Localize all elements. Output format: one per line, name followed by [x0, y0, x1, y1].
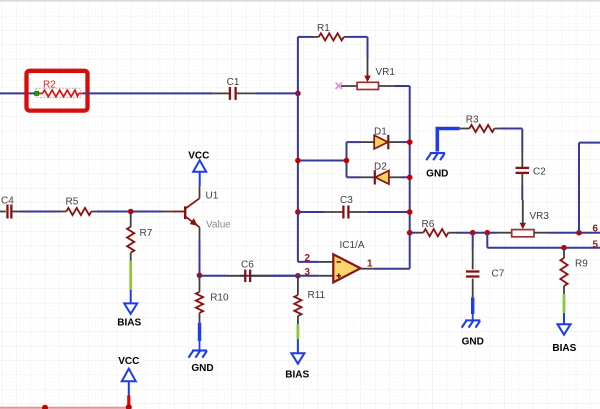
junction [197, 273, 203, 279]
wire segment (bias net) [296, 324, 299, 339]
power GND [430, 152, 445, 154]
wire [373, 268, 409, 270]
resistor R11 [297, 276, 299, 295]
wire [347, 36, 368, 38]
window top edge [0, 0, 600, 1]
wire segment (gnd net) [198, 323, 201, 341]
svg-text:GND: GND [191, 363, 213, 374]
wire segment (selected) [0, 407, 129, 409]
junction [407, 175, 413, 181]
svg-text:C4: C4 [1, 196, 14, 207]
svg-text:VR3: VR3 [530, 211, 550, 222]
svg-text:VCC: VCC [118, 356, 139, 367]
op-amp IC1/A [333, 254, 360, 282]
svg-text:R9: R9 [575, 259, 588, 270]
resistor R9 [563, 248, 565, 258]
wire [395, 85, 410, 87]
resistor R3 [460, 128, 470, 130]
svg-text:C6: C6 [241, 259, 254, 270]
wire [367, 37, 369, 58]
svg-text:C3: C3 [340, 195, 353, 206]
wire [367, 211, 409, 213]
wire [346, 142, 348, 177]
svg-text:5: 5 [593, 239, 599, 250]
svg-text:6: 6 [593, 223, 599, 234]
capacitor C6 [200, 275, 227, 277]
junction [295, 91, 301, 97]
junction [295, 273, 301, 279]
wire [199, 341, 201, 351]
svg-text:VCC: VCC [188, 151, 209, 162]
resistor R2 (selected) [36, 88, 81, 97]
wire [298, 261, 319, 263]
wire [401, 176, 410, 178]
svg-text:BIAS: BIAS [552, 343, 576, 354]
junction [128, 209, 134, 215]
wire [297, 37, 299, 262]
svg-text:GND: GND [462, 337, 484, 348]
svg-text:R1: R1 [317, 23, 330, 34]
junction [407, 139, 413, 145]
wire segment (gnd net) [437, 129, 459, 152]
capacitor C4 [0, 211, 6, 213]
wire segment (selected) [127, 396, 130, 408]
diode D1 [347, 141, 361, 143]
junction [295, 158, 301, 164]
power GND [465, 319, 480, 321]
svg-text:C2: C2 [533, 167, 546, 178]
wire [83, 92, 213, 94]
junction [407, 209, 413, 215]
svg-text:3: 3 [305, 267, 311, 278]
wire [549, 232, 600, 234]
wire segment (gnd net) [471, 297, 474, 314]
junction [344, 158, 350, 164]
svg-text:D1: D1 [374, 127, 387, 138]
svg-text:VR1: VR1 [376, 67, 396, 78]
svg-text:R5: R5 [66, 197, 79, 208]
pin lead [361, 268, 374, 270]
wire [486, 233, 488, 248]
selection frame [27, 71, 88, 111]
wire [563, 313, 565, 324]
junction [561, 245, 567, 251]
wire [401, 141, 410, 143]
svg-text:2: 2 [305, 253, 311, 264]
power GND [192, 349, 207, 351]
junction [485, 230, 491, 236]
svg-text:IC1/A: IC1/A [340, 240, 365, 251]
wire [0, 92, 37, 94]
junction [295, 209, 301, 215]
wire [409, 86, 411, 269]
resistor R1 [311, 36, 319, 38]
wire [269, 275, 298, 277]
svg-text:R6: R6 [422, 219, 435, 230]
resistor R7 [130, 212, 132, 227]
junction [126, 404, 132, 409]
svg-text:R11: R11 [308, 290, 326, 301]
wire [456, 232, 497, 234]
wire [298, 160, 347, 162]
wire [579, 142, 600, 144]
svg-text:BIAS: BIAS [285, 369, 309, 380]
resistor R6 [410, 232, 416, 234]
pin lead [162, 211, 172, 213]
wire [97, 211, 162, 213]
pin lead [319, 261, 333, 263]
junction [42, 405, 48, 409]
potentiometer VR1 [367, 58, 369, 75]
diode D2 [347, 176, 361, 178]
svg-text:D2: D2 [374, 162, 387, 173]
wire [240, 275, 298, 277]
junction [576, 230, 582, 236]
resistor R10 [199, 275, 201, 291]
pin lead [522, 200, 524, 223]
power BIAS [558, 324, 571, 335]
wire segment (bias net) [563, 294, 566, 313]
svg-text:R10: R10 [210, 293, 229, 304]
wire [255, 92, 298, 94]
junction [470, 230, 476, 236]
wire [521, 186, 523, 201]
wire [130, 290, 132, 303]
svg-text:C1: C1 [227, 77, 240, 88]
wire [501, 128, 523, 130]
wire segment (bias net) [129, 261, 132, 290]
wire [20, 211, 61, 213]
wire [472, 314, 474, 320]
wire [298, 36, 311, 38]
capacitor C2 [521, 152, 523, 167]
svg-text:U1: U1 [206, 190, 219, 201]
svg-text:R3: R3 [466, 114, 479, 125]
resistor R5 [61, 211, 67, 213]
capacitor C1 [213, 92, 229, 94]
potentiometer VR3 [497, 232, 512, 234]
svg-text:C7: C7 [492, 269, 505, 280]
junction [407, 230, 413, 236]
pin lead [199, 227, 201, 240]
wire [297, 339, 299, 353]
power BIAS [291, 353, 304, 364]
no-ERC cross [336, 83, 342, 89]
pin lead [298, 275, 319, 277]
transistor U1 [199, 186, 201, 198]
svg-text:Value: Value [206, 220, 231, 231]
capacitor C7 [472, 233, 474, 250]
svg-text:R2: R2 [43, 80, 56, 91]
svg-text:BIAS: BIAS [117, 318, 141, 329]
wire [199, 240, 201, 275]
capacitor C3 [298, 211, 325, 213]
power BIAS [124, 303, 137, 314]
svg-text:GND: GND [426, 169, 448, 180]
svg-text:R7: R7 [140, 228, 153, 239]
